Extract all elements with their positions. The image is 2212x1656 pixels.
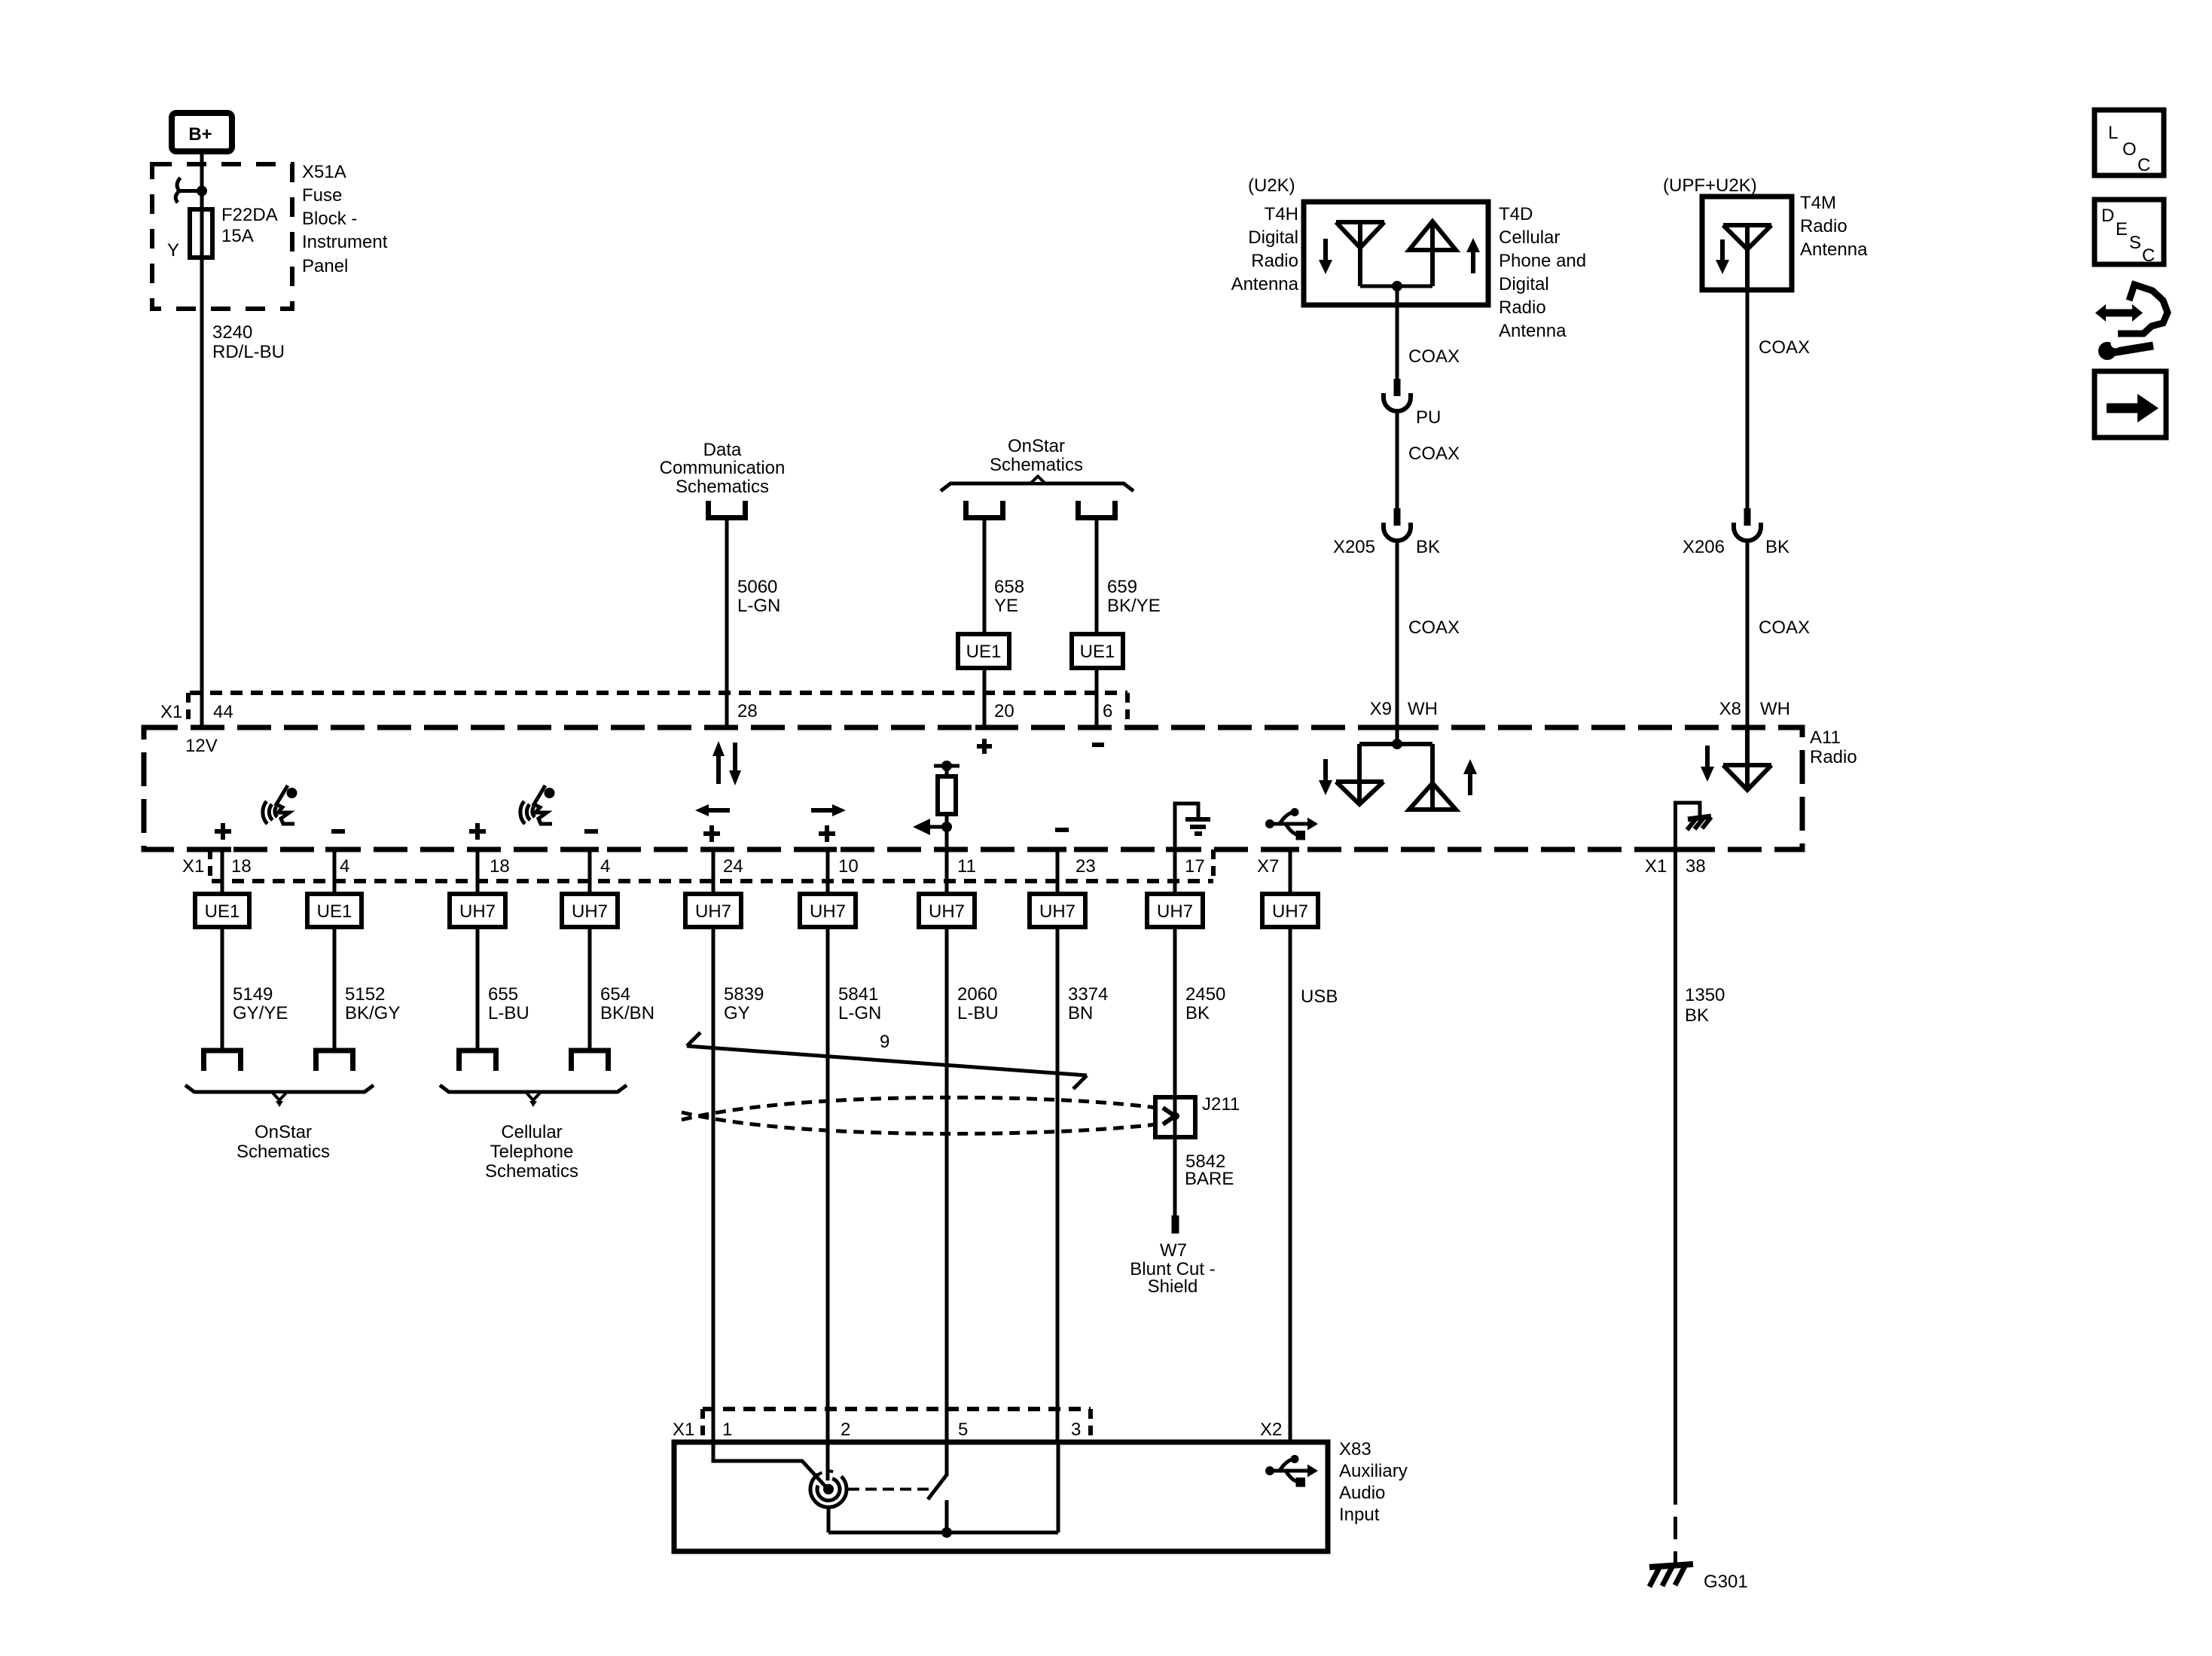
wire 654 BK/BN [588,927,592,1048]
minus sign (pin 4 OnStar) [331,829,345,834]
svg-text:D: D [2101,206,2114,226]
svg-text:COAX: COAX [1408,444,1460,464]
coax wire X206 to radio X8 [1746,540,1750,727]
svg-text:Digital: Digital [1248,227,1298,248]
svg-text:COAX: COAX [1408,618,1460,638]
USB icon (radio X7) [1265,808,1318,840]
wire label 5060 L-GN [737,577,780,616]
connector X1 bottom pin row dotted line [212,879,1213,883]
T4H down arrow [1319,239,1332,274]
label T4H Digital Radio Antenna [1231,204,1299,294]
svg-text:X51A: X51A [302,162,346,182]
svg-text:5: 5 [958,1420,968,1440]
svg-text:C: C [2137,155,2150,175]
X83 row right closure [1088,1409,1093,1442]
bus clip symbol [175,178,202,203]
OnStar Schematics bracket (bottom) [185,1085,374,1107]
wire label 3240 RD/L-BU [212,322,285,362]
label T4D Cellular Phone and Digital Radio Antenna [1499,204,1586,341]
svg-text:Schematics: Schematics [676,477,769,497]
svg-text:Audio: Audio [1339,1483,1385,1503]
svg-text:BK/YE: BK/YE [1107,596,1161,616]
wire 5060 L-GN [725,520,729,727]
svg-text:3: 3 [1071,1420,1081,1440]
svg-text:3240: 3240 [212,322,252,343]
svg-text:Y: Y [167,240,179,261]
wire 1350 BK (pin 38 to G301) [1673,849,1677,1482]
svg-text:J211: J211 [1202,1094,1240,1115]
wire 658 YE [983,520,987,727]
svg-text:Panel: Panel [302,256,348,276]
connector UH7 (5841) [800,894,856,927]
svg-text:12V: 12V [185,736,218,756]
svg-text:2450: 2450 [1185,984,1225,1005]
svg-text:10: 10 [838,856,859,877]
off-page staple (654) [572,1051,609,1071]
wire 5152 BK/GY [333,927,337,1048]
ground bus inside X83 [828,1531,1058,1535]
connector UE1 (pin 20 wire) [958,634,1009,668]
T4H antenna symbol (receive) [1336,222,1384,286]
svg-text:5841: 5841 [838,984,878,1005]
svg-text:20: 20 [994,701,1014,721]
svg-text:(U2K): (U2K) [1248,175,1295,196]
inline coax connector X205 [1384,508,1411,541]
minus sign (pin 4 cellular) [584,829,598,834]
radio internal chassis ground (pin 38) [1676,803,1712,849]
wire pin 3 to bus [1057,1442,1060,1532]
input arrow (pin 11) [913,819,947,835]
svg-text:6: 6 [1103,701,1112,721]
inline coax connector X206 [1734,508,1761,541]
svg-text:17: 17 [1185,856,1205,877]
svg-text:B+: B+ [188,124,212,145]
wire 5842 BARE [1173,1137,1177,1223]
svg-text:X1: X1 [160,702,182,722]
connector UH7 (2060) [919,894,975,927]
connector UH7 (USB) [1262,894,1318,927]
svg-text:UH7: UH7 [1157,901,1193,922]
X83 label [1339,1439,1408,1525]
svg-text:L-GN: L-GN [737,596,780,616]
svg-text:UE1: UE1 [317,901,352,922]
connector UH7 (3374) [1030,894,1085,927]
svg-text:WH: WH [1760,699,1790,719]
svg-text:BK: BK [1685,1005,1709,1026]
svg-text:44: 44 [213,702,233,722]
plus sign (pin 20) [977,739,992,754]
wire label 659 BK/YE [1107,577,1161,616]
right audio arrow (pin 10) [811,804,846,816]
svg-text:X83: X83 [1339,1439,1371,1459]
minus sign (pin 6) [1092,743,1104,747]
svg-text:X206: X206 [1683,537,1725,557]
svg-text:BK: BK [1416,537,1440,557]
off-page connector cup (Data Communication) [709,501,746,518]
dashed continuation to ground [1673,1482,1677,1564]
connector UE1 (pin 6 wire) [1072,634,1123,668]
svg-text:Shield: Shield [1148,1276,1198,1297]
connector UH7 (5839) [685,894,741,927]
svg-text:O: O [2122,139,2137,160]
plus sign (pin 18 cellular) [469,823,486,840]
bottom row left closure [208,849,212,881]
svg-text:X205: X205 [1333,537,1375,557]
wires from radio bottom pins to connector boxes [222,849,1290,894]
svg-text:BN: BN [1068,1003,1093,1023]
svg-text:Fuse: Fuse [302,185,342,206]
svg-text:Input: Input [1339,1505,1380,1525]
svg-text:T4D: T4D [1499,204,1533,224]
jack to ground bus [827,1508,831,1533]
svg-text:T4H: T4H [1265,204,1298,224]
wire 5839 GY (pin 24 to X83 pin 1) [712,927,715,1442]
OnStar bracket with pointer [941,477,1133,492]
OnStar Schematics label (top) [990,436,1083,475]
svg-text:Radio: Radio [1499,297,1546,318]
coax wire PU to X205 [1396,410,1399,508]
radio internal antenna (X8) [1723,727,1771,790]
connector X1 top row right closure [1125,693,1130,726]
legend harness routing icon [2095,285,2168,360]
svg-text:BARE: BARE [1185,1169,1234,1189]
wire 5149 GY/YE [221,927,224,1048]
Cellular Telephone Schematics label [485,1122,578,1182]
svg-text:Block -: Block - [302,209,357,229]
svg-text:W7: W7 [1160,1240,1187,1261]
svg-text:USB: USB [1301,987,1338,1007]
svg-text:Cellular: Cellular [501,1122,562,1142]
svg-text:L-GN: L-GN [838,1003,881,1023]
wire 5841 L-GN (pin 10 to X83 pin 2) [826,927,830,1442]
left audio arrow (pin 24) [695,804,730,816]
microphone icon (OnStar) [263,785,297,824]
svg-text:X1: X1 [673,1420,694,1440]
T4M down arrow [1716,239,1729,274]
label T4M Radio Antenna [1800,193,1868,260]
W7 Blunt Cut label [1130,1240,1215,1297]
svg-text:L: L [2108,123,2118,143]
svg-text:Antenna: Antenna [1499,321,1567,341]
wire 2450 BK (pin 17 shield) [1173,927,1177,1223]
legend DESC box [2095,200,2164,266]
svg-text:Schematics: Schematics [990,455,1083,475]
antenna feed bus and node [1360,285,1432,288]
wire 655 L-BU [476,927,480,1048]
svg-text:Radio: Radio [1800,216,1847,236]
off-page staple (655) [459,1051,496,1071]
minus sign (pin 23) [1055,828,1069,832]
svg-text:UH7: UH7 [695,901,731,922]
radio X9 up arrow [1463,759,1477,795]
svg-text:11: 11 [957,856,976,877]
connector X1 top row left closure [186,693,191,726]
switch lower wire [945,1500,949,1532]
svg-text:Phone and: Phone and [1499,251,1586,271]
off-page connector cup (OnStar 658) [966,501,1003,518]
svg-text:23: 23 [1075,856,1096,877]
radio X9 down arrow [1319,759,1332,795]
Cellular Telephone bracket [440,1085,627,1107]
shield drain dashed loop [682,1097,1157,1133]
plus sign (pin 18 OnStar) [215,823,231,840]
svg-text:Antenna: Antenna [1231,274,1299,294]
wire label 658 YE [994,577,1024,616]
connector UE1 (5152) [307,894,362,927]
svg-text:5152: 5152 [345,984,385,1005]
svg-text:X8: X8 [1719,699,1741,719]
svg-text:YE: YE [994,596,1018,616]
T4M antenna symbol [1723,225,1771,290]
T4D up arrow [1466,238,1480,273]
pin ticks on radio bottom border [213,847,1685,852]
svg-text:A11: A11 [1810,727,1841,748]
USB icon (X83 X2) [1265,1455,1318,1487]
blunt cut terminal W7 [1172,1215,1179,1234]
svg-text:BK/GY: BK/GY [345,1003,400,1023]
svg-text:COAX: COAX [1759,337,1810,358]
radio A11 label [1810,727,1857,767]
svg-text:28: 28 [737,701,758,721]
wire 3240 RD/L-BU from B+ to radio pin 44 [200,154,204,727]
svg-text:OnStar: OnStar [1008,436,1065,456]
svg-text:X2: X2 [1260,1420,1282,1440]
svg-text:UH7: UH7 [810,901,846,922]
svg-text:9: 9 [880,1032,889,1052]
detect switch blade [928,1474,947,1499]
svg-text:24: 24 [723,856,743,877]
OnStar Schematics label (bottom) [236,1122,330,1162]
T4H/T4D antenna module box [1304,202,1488,305]
svg-text:G301: G301 [1704,1572,1748,1592]
wire 659 BK/YE [1095,520,1099,727]
svg-text:X1: X1 [182,856,204,877]
svg-text:GY/YE: GY/YE [233,1003,288,1023]
connector X1 top pin row dotted line [190,691,1127,695]
svg-text:Auxiliary: Auxiliary [1339,1461,1408,1481]
svg-text:UE1: UE1 [966,642,1002,662]
svg-text:X1: X1 [1645,856,1667,877]
connector X1 pin row (X83) dotted line [703,1407,1091,1411]
svg-text:18: 18 [490,856,510,877]
wire pin 5 to switch [945,1442,949,1475]
radio internal antenna pair (X9) [1336,727,1456,810]
data link up/down arrows (pin 28) [712,741,741,785]
svg-text:WH: WH [1408,699,1438,719]
fuse block X51A dashed box [152,164,292,309]
svg-text:Antenna: Antenna [1800,239,1868,260]
svg-text:4: 4 [600,856,610,877]
junction node in fuse block [197,186,207,197]
audio jack symbol [810,1471,847,1508]
svg-text:Schematics: Schematics [485,1161,578,1182]
svg-text:COAX: COAX [1408,346,1460,367]
coax wire from T4H/T4D module [1396,286,1399,379]
svg-text:Schematics: Schematics [236,1142,330,1162]
plus sign (pin 24) [703,825,720,842]
svg-text:S: S [2129,233,2141,253]
svg-text:1350: 1350 [1685,985,1725,1005]
svg-text:F22DA: F22DA [221,205,278,225]
svg-text:OnStar: OnStar [255,1122,312,1142]
svg-text:X7: X7 [1257,856,1279,877]
T4M radio antenna box [1702,197,1792,290]
coax wire X205 to radio X9 [1396,540,1399,727]
svg-text:18: 18 [231,856,252,877]
X83 auxiliary audio input box [674,1442,1328,1551]
svg-text:5839: 5839 [724,984,764,1005]
svg-text:Radio: Radio [1251,251,1298,271]
svg-text:Data: Data [703,440,742,460]
radio A11 dashed box [144,727,1802,849]
wire 2060 L-BU (pin 11 to X83 pin 5) [945,927,949,1442]
svg-text:BK: BK [1185,1003,1210,1023]
svg-text:Telephone: Telephone [490,1142,574,1162]
coax wire from T4M [1746,290,1750,508]
off-page connector cup (OnStar 659) [1079,501,1115,518]
svg-text:RD/L-BU: RD/L-BU [212,342,285,362]
radio X8 down arrow [1701,746,1714,782]
svg-text:3374: 3374 [1068,984,1108,1005]
connector UE1 (5149) [195,894,249,927]
svg-text:Cellular: Cellular [1499,227,1560,248]
T4D antenna symbol (transmit) [1409,221,1456,286]
bottom row right closure [1211,849,1216,881]
svg-text:COAX: COAX [1759,618,1810,638]
svg-text:15A: 15A [221,226,254,246]
fuse F22DA 15A [190,209,212,258]
off-page staple (5152) [316,1051,353,1071]
shield ground symbol (pin 17) [1175,804,1210,849]
off-page staple (5149) [204,1051,241,1071]
resistor branch (pin 11) [934,761,960,849]
svg-text:T4M: T4M [1800,193,1836,213]
svg-text:654: 654 [600,984,630,1005]
wire pin 2 into jack [826,1442,830,1481]
svg-text:GY: GY [724,1003,750,1023]
svg-text:Instrument: Instrument [302,232,388,252]
svg-text:5060: 5060 [737,577,777,597]
connector UH7 (655) [450,894,505,927]
microphone icon (cellular) [520,785,555,824]
inline coax connector (PU) [1384,379,1411,411]
B+ battery feed symbol [172,113,232,151]
svg-text:UH7: UH7 [929,901,965,922]
svg-text:Communication: Communication [660,458,786,478]
splice J211 [1155,1097,1195,1137]
wire to jack tip (pin 1) [713,1442,826,1487]
svg-text:E: E [2116,219,2128,239]
svg-text:1: 1 [722,1420,732,1440]
Data Communication Schematics label [660,440,786,497]
svg-text:PU: PU [1416,407,1441,428]
svg-text:UH7: UH7 [1272,901,1308,922]
wire USB (X7 to X83 X2) [1289,927,1292,1442]
svg-text:2: 2 [841,1420,850,1440]
ground G301 [1649,1564,1693,1587]
fuse block label X51A [302,162,388,276]
svg-text:658: 658 [994,577,1024,597]
legend arrow box [2095,371,2166,438]
svg-text:5149: 5149 [233,984,273,1005]
pin ticks on radio top border [193,725,1756,730]
switch linkage dashed line [848,1488,931,1491]
junction node on bus [941,1527,952,1538]
svg-text:659: 659 [1107,577,1137,597]
plus sign (pin 10) [819,825,835,842]
svg-text:UE1: UE1 [1080,642,1115,662]
legend LOC box [2095,110,2164,175]
svg-text:X9: X9 [1370,699,1392,719]
svg-text:Radio: Radio [1810,747,1857,767]
svg-text:38: 38 [1686,856,1706,877]
svg-text:Digital: Digital [1499,274,1549,294]
svg-text:UE1: UE1 [205,901,240,922]
wire 3374 BN (pin 23 to X83 pin 3) [1056,927,1060,1442]
svg-text:(UPF+U2K): (UPF+U2K) [1663,175,1757,196]
connector UH7 (654) [562,894,618,927]
svg-text:L-BU: L-BU [488,1003,529,1023]
svg-text:2060: 2060 [957,984,997,1005]
X83 row left closure [700,1409,705,1442]
twisted pair callout line 9 [687,1032,1087,1089]
connector UH7 (2450) [1147,894,1203,927]
svg-text:655: 655 [488,984,518,1005]
svg-text:UH7: UH7 [459,901,496,922]
svg-text:4: 4 [340,856,349,877]
svg-text:UH7: UH7 [572,901,608,922]
svg-text:L-BU: L-BU [957,1003,999,1023]
svg-text:UH7: UH7 [1039,901,1075,922]
svg-text:BK: BK [1765,537,1789,557]
svg-text:C: C [2142,246,2155,266]
svg-text:BK/BN: BK/BN [600,1003,654,1023]
